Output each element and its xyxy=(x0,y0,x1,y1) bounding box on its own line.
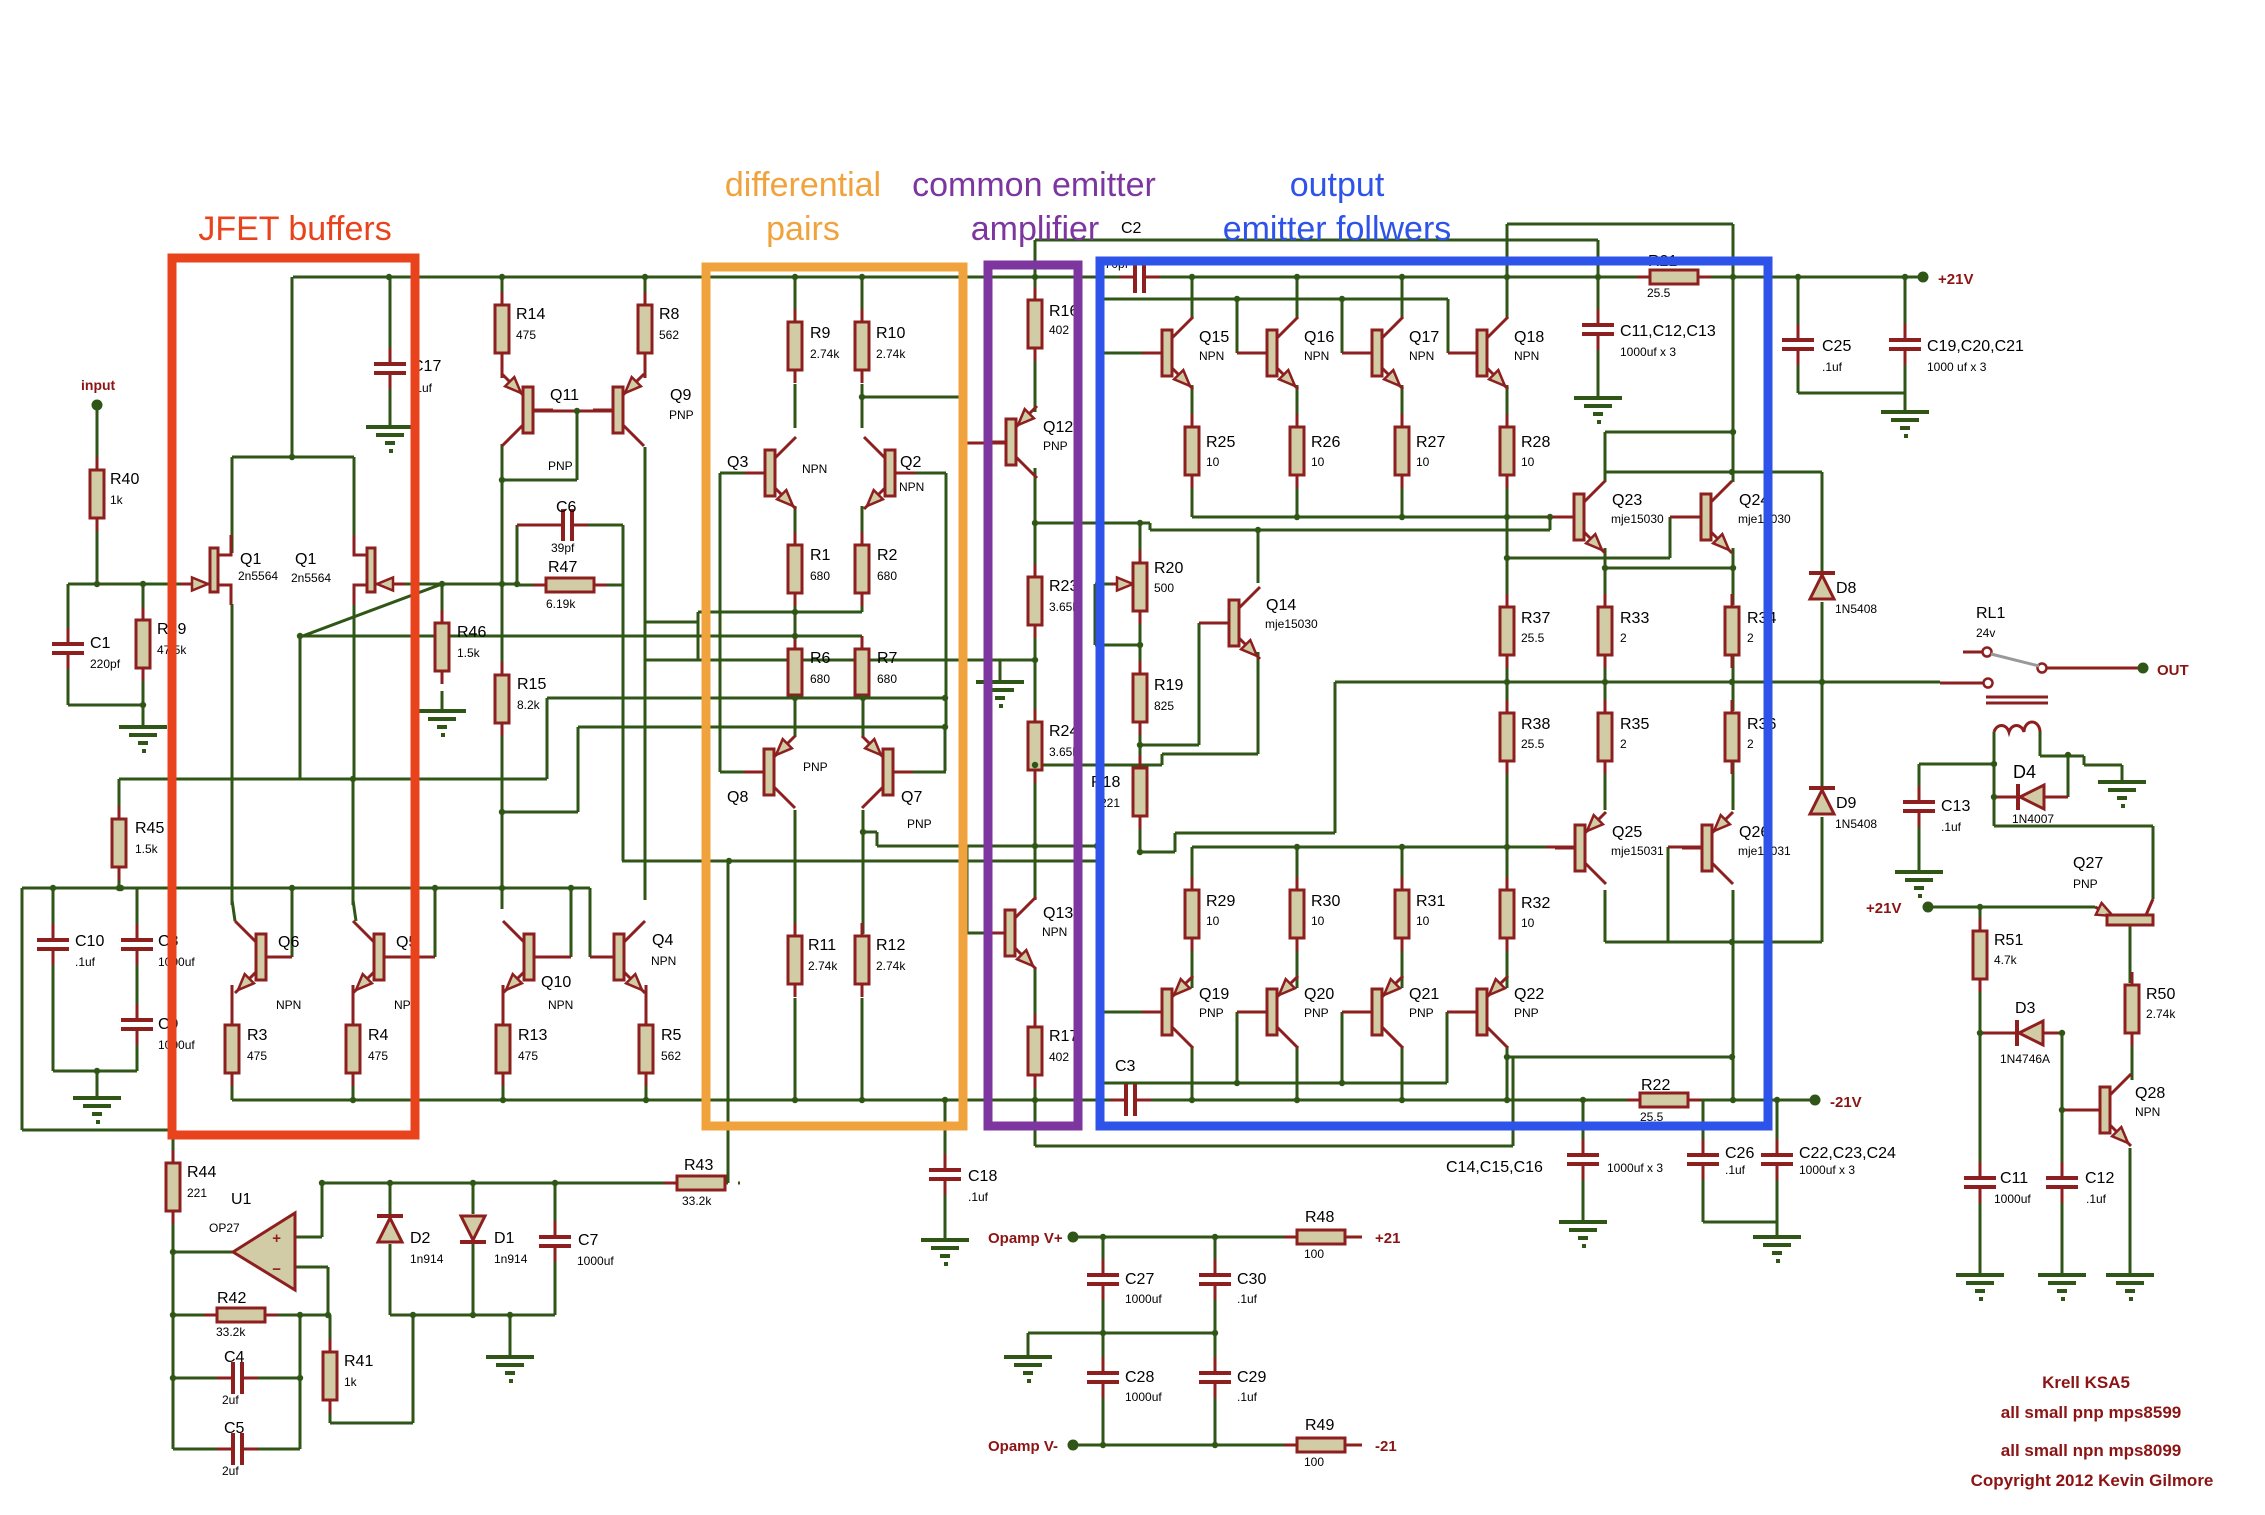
svg-text:Q16: Q16 xyxy=(1304,329,1334,346)
svg-text:Q14: Q14 xyxy=(1266,597,1296,614)
svg-text:1000uf: 1000uf xyxy=(1125,1292,1162,1306)
svg-text:R2: R2 xyxy=(877,547,898,564)
node OUT terminal xyxy=(2138,663,2149,674)
wire Q14 emitter path xyxy=(1257,652,1260,754)
ground C19 group xyxy=(1881,410,1929,414)
svg-text:Krell KSA5: Krell KSA5 xyxy=(2042,1373,2130,1392)
svg-text:R6: R6 xyxy=(810,650,831,667)
resistor R48 xyxy=(1284,1236,1297,1239)
svg-text:475: 475 xyxy=(518,1049,538,1063)
resistor R12 xyxy=(861,923,864,936)
wire NPN base bus xyxy=(1104,298,1448,301)
svg-text:2uf: 2uf xyxy=(222,1393,239,1407)
transistor Q23 xyxy=(1554,516,1574,519)
svg-text:Q22: Q22 xyxy=(1514,986,1544,1003)
node pnp bus dots xyxy=(1234,1080,1240,1086)
wire diode row bottoms xyxy=(389,1244,392,1315)
svg-text:2.74k: 2.74k xyxy=(808,959,838,973)
svg-text:1.5k: 1.5k xyxy=(457,646,481,660)
wire C13 top xyxy=(1918,764,1921,800)
svg-text:NPN: NPN xyxy=(276,998,301,1012)
svg-text:Q9: Q9 xyxy=(670,387,691,404)
resistor R28 xyxy=(1506,414,1509,427)
wire C4 row xyxy=(173,1377,217,1380)
capacitor C25 xyxy=(1797,324,1800,339)
wire R41 column xyxy=(329,1315,332,1350)
capacitor C26 xyxy=(1702,1139,1705,1154)
wire C22 riser xyxy=(1776,1100,1779,1153)
svg-text:NPN: NPN xyxy=(1042,925,1067,939)
svg-text:.1uf: .1uf xyxy=(1237,1390,1258,1404)
svg-text:R30: R30 xyxy=(1311,893,1340,910)
svg-text:PNP: PNP xyxy=(2073,877,2098,891)
svg-text:emitter follwers: emitter follwers xyxy=(1223,210,1452,248)
resistor R13 xyxy=(502,1012,505,1025)
wire Q19 base xyxy=(1104,1011,1162,1014)
wire C10 C8 top xyxy=(22,887,590,890)
wire R44 bottom xyxy=(172,1211,175,1252)
wire R38 bottom xyxy=(1506,759,1509,847)
transistor Q9 xyxy=(593,409,613,412)
wire R47 C6 left xyxy=(516,525,519,584)
svg-text:R22: R22 xyxy=(1641,1077,1670,1094)
svg-text:1N4007: 1N4007 xyxy=(2012,812,2054,826)
svg-text:100: 100 xyxy=(1304,1455,1324,1469)
svg-text:1.5k: 1.5k xyxy=(135,842,159,856)
transistor Q18 xyxy=(1457,352,1477,355)
capacitor C9 xyxy=(136,1004,139,1019)
ground relay xyxy=(2098,780,2146,784)
wire Q24 base jog xyxy=(1506,517,1509,558)
svg-text:-21: -21 xyxy=(1375,1438,1397,1455)
wire Q19-Q22 collectors xyxy=(1191,1046,1194,1100)
wire R19 R18 xyxy=(1139,733,1142,766)
ground C12 psu xyxy=(2038,1273,2086,1277)
resistor R24 xyxy=(1034,709,1037,722)
wire R14 top xyxy=(501,277,504,303)
svg-text:R29: R29 xyxy=(1206,893,1235,910)
node opamp v+ terminal xyxy=(1068,1232,1079,1243)
svg-text:R15: R15 xyxy=(517,676,546,693)
resistor R27 xyxy=(1401,414,1404,427)
wire long mid xyxy=(119,778,547,781)
svg-text:10: 10 xyxy=(1206,914,1220,928)
resistor R17 xyxy=(1034,1014,1037,1027)
transistor Q6 xyxy=(266,956,286,959)
svg-text:2n5564: 2n5564 xyxy=(291,571,331,585)
wire C5 row xyxy=(173,1448,217,1451)
svg-text:1N5408: 1N5408 xyxy=(1835,817,1877,831)
wire Q9 to Q4 cascode xyxy=(644,447,647,900)
svg-text:Q18: Q18 xyxy=(1514,329,1544,346)
wire C19 column xyxy=(1904,277,1907,336)
capacitor C27 xyxy=(1102,1259,1105,1274)
relay coil xyxy=(1986,696,2048,699)
transistor Q20 xyxy=(1247,1011,1267,1014)
transistor Q4 xyxy=(594,956,614,959)
svg-text:all small pnp mps8599: all small pnp mps8599 xyxy=(2001,1403,2181,1422)
resistor R33 xyxy=(1604,594,1607,607)
wire output zigzag xyxy=(1334,682,1337,833)
capacitor C10 xyxy=(52,924,55,939)
wire Q25 base bus xyxy=(1192,846,1546,849)
svg-text:R7: R7 xyxy=(877,650,898,667)
wire Q15 base xyxy=(1104,352,1162,355)
resistor R21 xyxy=(1637,276,1650,279)
wire C26 riser xyxy=(1702,1100,1705,1153)
capacitor C5 xyxy=(217,1448,232,1451)
transistor Q19 xyxy=(1142,1011,1162,1014)
svg-text:10: 10 xyxy=(1416,914,1430,928)
wire wiper loop xyxy=(1094,584,1097,645)
resistor R34 xyxy=(1731,594,1734,607)
diode D8 xyxy=(1809,571,1835,575)
svg-text:Q11: Q11 xyxy=(550,387,579,404)
svg-text:output: output xyxy=(1290,166,1385,204)
svg-text:2: 2 xyxy=(1620,631,1627,645)
wire OUT rail xyxy=(1335,681,1940,684)
wire R20 link xyxy=(1035,522,1150,525)
resistor R31 xyxy=(1401,877,1404,890)
ground C17 xyxy=(366,425,414,429)
svg-text:825: 825 xyxy=(1154,699,1174,713)
svg-text:C11,C12,C13: C11,C12,C13 xyxy=(1620,323,1716,340)
svg-text:2: 2 xyxy=(1620,737,1627,751)
capacitor C30 xyxy=(1214,1259,1217,1274)
wire opamp vminus xyxy=(1073,1444,1297,1447)
wire riser Q17 base xyxy=(1341,299,1344,353)
svg-text:C7: C7 xyxy=(578,1232,599,1249)
svg-text:NPN: NPN xyxy=(1304,349,1329,363)
ground diode bus xyxy=(486,1355,534,1359)
resistor R26 xyxy=(1296,414,1299,427)
wire R42 row xyxy=(173,1314,204,1317)
transistor Q28 xyxy=(2080,1109,2100,1112)
svg-text:R14: R14 xyxy=(516,306,545,323)
wire diagonal xyxy=(300,584,442,637)
svg-text:Q8: Q8 xyxy=(727,789,748,806)
wire C27 C30 xyxy=(1102,1237,1105,1273)
node base bus dots xyxy=(1234,296,1240,302)
capacitor C17 xyxy=(389,348,392,363)
transistor Q2 xyxy=(895,472,915,475)
wire D4 stubs xyxy=(1994,796,2018,799)
svg-text:R11: R11 xyxy=(808,937,836,954)
resistor R47 xyxy=(533,584,546,587)
svg-text:Q27: Q27 xyxy=(2073,855,2103,872)
svg-text:10: 10 xyxy=(1311,914,1325,928)
wire +21V top rail xyxy=(293,276,1133,279)
svg-text:R25: R25 xyxy=(1206,434,1235,451)
wire PNP base bus xyxy=(1104,1082,1447,1085)
wire D4 right xyxy=(2067,755,2070,797)
wire R51 column xyxy=(1979,907,1982,931)
svg-text:10: 10 xyxy=(1206,455,1220,469)
resistor R9 xyxy=(794,309,797,322)
wire Q24 collector riser xyxy=(1732,277,1735,482)
svg-text:PNP: PNP xyxy=(1199,1006,1224,1020)
svg-text:C4: C4 xyxy=(224,1349,245,1366)
wire C18 riser xyxy=(944,1100,947,1168)
wire hidden bus vertical xyxy=(1099,299,1102,1083)
svg-text:R44: R44 xyxy=(187,1164,216,1181)
svg-text:10: 10 xyxy=(1311,455,1325,469)
svg-text:1000 uf x 3: 1000 uf x 3 xyxy=(1927,360,1987,374)
svg-text:C3: C3 xyxy=(1115,1058,1136,1075)
resistor R44 xyxy=(172,1150,175,1163)
wire C10 C9 bottom xyxy=(52,956,55,1071)
resistor R14 xyxy=(501,292,504,305)
wire R21 bypass xyxy=(1507,223,1733,226)
wire emitters Q7Q8 xyxy=(547,697,945,700)
svg-text:differential: differential xyxy=(725,166,881,204)
svg-text:1000uf: 1000uf xyxy=(158,955,195,969)
wire C17 column xyxy=(389,277,392,348)
svg-text:JFET buffers: JFET buffers xyxy=(198,210,391,248)
svg-text:C5: C5 xyxy=(224,1420,245,1437)
transistor Q14 xyxy=(1209,622,1229,625)
wire emitter bus top xyxy=(1192,516,1576,519)
capacitor C11,C12,C13 xyxy=(1597,309,1600,324)
svg-text:R28: R28 xyxy=(1521,434,1550,451)
svg-text:1000uf: 1000uf xyxy=(158,1038,195,1052)
svg-text:2uf: 2uf xyxy=(222,1464,239,1478)
svg-text:R26: R26 xyxy=(1311,434,1340,451)
svg-text:R8: R8 xyxy=(659,306,680,323)
transistor Q12 xyxy=(986,441,1006,444)
diode D9 xyxy=(1809,786,1835,790)
svg-text:2.74k: 2.74k xyxy=(876,347,906,361)
capacitor C19,C20,C21 xyxy=(1904,324,1907,339)
svg-text:PNP: PNP xyxy=(907,817,932,831)
svg-text:Q17: Q17 xyxy=(1409,329,1439,346)
svg-text:R45: R45 xyxy=(135,820,164,837)
svg-text:2.74k: 2.74k xyxy=(2146,1007,2176,1021)
svg-text:Q1: Q1 xyxy=(240,551,261,568)
wire diode bottom bus xyxy=(390,1314,555,1317)
svg-text:402: 402 xyxy=(1049,323,1069,337)
wire riser Q22 base xyxy=(1446,1012,1449,1083)
svg-text:2: 2 xyxy=(1747,737,1754,751)
wire relay out xyxy=(2046,667,2139,670)
wire Q13 base riser xyxy=(966,846,969,933)
svg-text:R3: R3 xyxy=(247,1027,268,1044)
resistor R36 xyxy=(1731,700,1734,713)
svg-text:R49: R49 xyxy=(1305,1417,1334,1434)
wire input column xyxy=(96,405,99,470)
svg-text:Q6: Q6 xyxy=(278,934,299,951)
resistor R7 xyxy=(861,636,864,649)
svg-text:R31: R31 xyxy=(1416,893,1445,910)
svg-text:+21V: +21V xyxy=(1866,900,1901,917)
svg-text:Copyright 2012 Kevin Gilmore: Copyright 2012 Kevin Gilmore xyxy=(1971,1471,2214,1490)
wire right fb column xyxy=(299,1315,302,1449)
wire R10 bottom link xyxy=(862,396,961,399)
svg-text:R33: R33 xyxy=(1620,610,1649,627)
svg-text:1N5408: 1N5408 xyxy=(1835,602,1877,616)
wire Q15-Q18 collectors xyxy=(1191,277,1194,318)
wire R37 column xyxy=(1506,517,1509,605)
transistor Q17 xyxy=(1352,352,1372,355)
resistor R49 xyxy=(1284,1444,1297,1447)
svg-text:39pf: 39pf xyxy=(551,541,575,555)
svg-text:R43: R43 xyxy=(684,1157,713,1174)
svg-text:Q1: Q1 xyxy=(295,551,316,568)
transistor Q13 xyxy=(985,932,1005,935)
wire lower base bus xyxy=(291,888,294,957)
svg-text:NPN: NPN xyxy=(651,954,676,968)
wire C1 branch xyxy=(67,584,70,640)
capacitor C13 xyxy=(1918,786,1921,801)
box JFET buffers xyxy=(172,258,415,1135)
wire Q23Q24 emitters xyxy=(1604,548,1607,605)
resistor R35 xyxy=(1604,700,1607,713)
svg-text:2.74k: 2.74k xyxy=(810,347,840,361)
transistor Q27 xyxy=(2095,907,2115,917)
svg-text:C26: C26 xyxy=(1725,1145,1754,1162)
svg-text:Q3: Q3 xyxy=(727,454,748,471)
svg-text:amplifier: amplifier xyxy=(971,210,1099,248)
wire Q2 collector xyxy=(861,384,864,428)
wire opamp out xyxy=(173,1251,233,1254)
transistor Q15 xyxy=(1142,352,1162,355)
svg-text:475: 475 xyxy=(368,1049,388,1063)
wire R29-R32 tops xyxy=(1191,847,1194,877)
wire R3-R5 bottoms xyxy=(231,1073,234,1100)
svg-text:Q21: Q21 xyxy=(1409,986,1439,1003)
svg-text:R35: R35 xyxy=(1620,716,1649,733)
node gate dots xyxy=(94,581,100,587)
svg-text:33.2k: 33.2k xyxy=(216,1325,246,1339)
svg-text:562: 562 xyxy=(661,1049,681,1063)
svg-text:+21V: +21V xyxy=(1938,271,1973,288)
wire coil left xyxy=(1993,732,1996,826)
svg-text:680: 680 xyxy=(810,569,830,583)
svg-text:+21: +21 xyxy=(1375,1230,1400,1247)
svg-text:R27: R27 xyxy=(1416,434,1445,451)
svg-text:6.19k: 6.19k xyxy=(546,597,576,611)
svg-text:Q13: Q13 xyxy=(1043,905,1073,922)
wire Q7 collector xyxy=(862,810,865,934)
wire Q13 emitter xyxy=(1034,968,1037,1025)
ground C13 xyxy=(1895,870,1943,874)
resistor R16 xyxy=(1034,287,1037,300)
resistor R20 xyxy=(1139,550,1142,563)
svg-text:OP27: OP27 xyxy=(209,1221,240,1235)
svg-text:1000uf: 1000uf xyxy=(577,1254,614,1268)
wire R24 bottom xyxy=(1034,770,1037,900)
wire Q11 mirror xyxy=(501,364,504,378)
capacitor C14,C15,C16 xyxy=(1582,1139,1585,1154)
svg-text:common emitter: common emitter xyxy=(912,166,1156,204)
wire R25-R28 bottoms xyxy=(1191,478,1194,517)
svg-text:R13: R13 xyxy=(518,1027,547,1044)
capacitor C12 psu xyxy=(2061,1162,2064,1177)
resistor R10 xyxy=(861,309,864,322)
svg-text:R12: R12 xyxy=(876,937,905,954)
svg-text:PNP: PNP xyxy=(548,459,573,473)
svg-text:10: 10 xyxy=(1521,455,1535,469)
resistor R32 xyxy=(1506,877,1509,890)
svg-text:Q7: Q7 xyxy=(901,789,922,806)
wire R20 top xyxy=(1139,523,1142,561)
opamp U1 xyxy=(233,1213,295,1290)
wire Q6 collector xyxy=(232,900,235,921)
wire riser Q16 base xyxy=(1236,299,1239,353)
svg-text:R9: R9 xyxy=(810,325,831,342)
svg-text:.1uf: .1uf xyxy=(2086,1192,2107,1206)
svg-text:402: 402 xyxy=(1049,1050,1069,1064)
svg-text:Q28: Q28 xyxy=(2135,1085,2165,1102)
resistor R43 xyxy=(664,1182,677,1185)
wire R46 gnd xyxy=(441,691,444,711)
svg-text:U1: U1 xyxy=(231,1191,252,1208)
resistor R15 xyxy=(501,662,504,675)
capacitor C6 xyxy=(547,524,562,527)
svg-text:220pf: 220pf xyxy=(90,657,121,671)
svg-text:RL1: RL1 xyxy=(1976,605,2005,622)
svg-text:4.7k: 4.7k xyxy=(1994,953,2018,967)
svg-text:680: 680 xyxy=(810,672,830,686)
ground R39 C1 xyxy=(119,725,167,729)
transistor Q1 right jfet xyxy=(375,583,405,586)
svg-text:Q20: Q20 xyxy=(1304,986,1334,1003)
svg-text:2: 2 xyxy=(1747,631,1754,645)
wire R10 top xyxy=(861,277,864,320)
wire R15 column xyxy=(501,723,504,909)
resistor R42 xyxy=(204,1314,217,1317)
svg-text:C25: C25 xyxy=(1822,338,1851,355)
wire coil right xyxy=(2039,732,2042,756)
wire top small rail xyxy=(322,1182,677,1185)
resistor R38 xyxy=(1506,700,1509,713)
svg-text:C12: C12 xyxy=(2085,1170,2114,1187)
diode D3 xyxy=(2015,1020,2019,1046)
node +21V terminal xyxy=(1918,272,1929,283)
svg-text:R18: R18 xyxy=(1091,774,1120,791)
svg-text:1n914: 1n914 xyxy=(410,1252,444,1266)
svg-text:.1uf: .1uf xyxy=(1822,360,1843,374)
wire Q10 collector xyxy=(501,884,504,909)
svg-text:-21V: -21V xyxy=(1830,1094,1862,1111)
wire Q14 base xyxy=(1198,623,1201,745)
svg-text:R42: R42 xyxy=(217,1290,246,1307)
svg-text:R46: R46 xyxy=(457,624,486,641)
svg-text:mje15030: mje15030 xyxy=(1265,617,1318,631)
svg-text:1000uf x 3: 1000uf x 3 xyxy=(1620,345,1676,359)
box differential pairs xyxy=(706,267,963,1126)
wire Q28 collector xyxy=(2131,1033,2134,1080)
wire R20 R19 xyxy=(1139,609,1142,672)
wire Q3 collector xyxy=(794,384,797,428)
resistor R1 xyxy=(794,532,797,545)
wire Q23 collector riser xyxy=(1604,432,1607,482)
svg-text:10: 10 xyxy=(1521,916,1535,930)
wire R29-R32 bottoms xyxy=(1191,950,1194,988)
wire R34 R36 column xyxy=(1732,655,1735,711)
svg-text:R51: R51 xyxy=(1994,932,2023,949)
wire Q3 Q8 base riser xyxy=(719,473,722,772)
wire Q27 base xyxy=(2129,925,2132,983)
resistor R6 xyxy=(794,636,797,649)
resistor R2 xyxy=(861,532,864,545)
node bottom rail dots xyxy=(350,1097,356,1103)
wire opamp minus in xyxy=(295,1266,328,1269)
svg-text:33.2k: 33.2k xyxy=(682,1194,712,1208)
svg-text:C10: C10 xyxy=(75,933,104,950)
wire riser Q21 base xyxy=(1341,1012,1344,1083)
svg-text:C13: C13 xyxy=(1941,798,1970,815)
